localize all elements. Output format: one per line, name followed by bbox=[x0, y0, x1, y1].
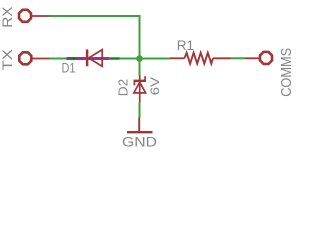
svg-text:D1: D1 bbox=[62, 59, 76, 75]
svg-text:GND: GND bbox=[122, 134, 157, 150]
wire R1 to COMMS bbox=[231, 57, 246, 59]
svg-text:RX: RX bbox=[0, 6, 15, 28]
diode D1 pin right (purple) bbox=[88, 57, 109, 60]
junction node bbox=[136, 55, 143, 62]
zener D2 bar hook right bbox=[144, 76, 146, 81]
diode D1 triangle bbox=[89, 50, 103, 67]
zener D2 pin line through symbol bbox=[139, 75, 141, 103]
resistor R1 zigzag bbox=[184, 53, 213, 64]
pin COMMS stub bbox=[245, 57, 259, 59]
wire D2 to GND bbox=[139, 103, 141, 118]
pin RX bbox=[19, 10, 49, 22]
ground symbol bar bbox=[127, 131, 153, 133]
svg-text:R1: R1 bbox=[177, 37, 194, 53]
zener D2 bar hook left bbox=[133, 81, 135, 86]
resistor R1 lead right bbox=[213, 57, 231, 59]
ground symbol stem bbox=[138, 118, 140, 132]
wire junction to R1 bbox=[142, 58, 170, 60]
resistor R1 lead left bbox=[170, 57, 185, 59]
zener D2 triangle bbox=[134, 82, 146, 93]
diode D1 cathode bar bbox=[86, 49, 89, 66]
svg-text:TX: TX bbox=[0, 48, 15, 70]
svg-text:6V: 6V bbox=[148, 77, 162, 95]
wire RX to junction bbox=[49, 16, 140, 56]
wire junction to D2 bbox=[139, 61, 141, 76]
diode D1 pin right net overlap (dark green) bbox=[109, 57, 119, 59]
zener D2 cathode bar bbox=[134, 80, 147, 82]
svg-text:D2: D2 bbox=[116, 79, 131, 97]
pin TX bbox=[19, 52, 49, 64]
wire TX to D1 bbox=[49, 58, 67, 60]
pin COMMS circle bbox=[260, 52, 272, 64]
wire D1 to junction bbox=[120, 58, 138, 60]
diode D1 pin left net overlap (dark green) bbox=[70, 57, 76, 59]
svg-text:COMMS: COMMS bbox=[278, 48, 293, 97]
diode D1 pin left (purple) bbox=[67, 57, 87, 60]
